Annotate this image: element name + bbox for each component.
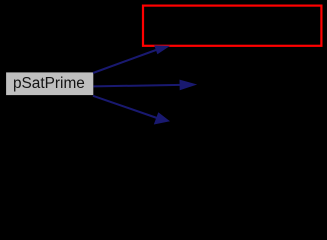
node: red-bordered callee box [143, 6, 321, 46]
arrowhead: edge to middle callee [180, 80, 198, 91]
wire: edge pSatPrime -> lower callee [93, 96, 157, 118]
node pSatPrime: gray box [6, 72, 93, 95]
wire: edge pSatPrime -> red box [93, 50, 156, 73]
svg-text:pSatPrime: pSatPrime [13, 75, 85, 92]
arrowhead: edge to red box [154, 45, 170, 54]
arrowhead: edge to lower callee [154, 112, 170, 124]
wire: edge pSatPrime -> middle callee [94, 85, 182, 87]
